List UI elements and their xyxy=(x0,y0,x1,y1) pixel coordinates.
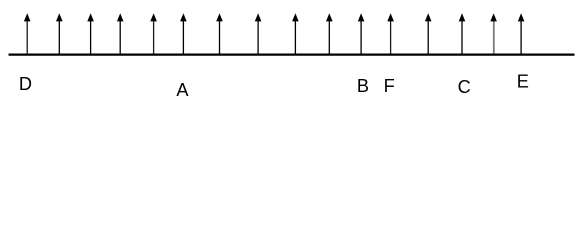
arrow 2 xyxy=(56,13,63,53)
arrow 9 xyxy=(292,13,299,53)
beam line xyxy=(9,53,575,55)
arrow 13 xyxy=(425,13,432,53)
arrow 6 (at A) xyxy=(180,13,187,53)
arrow 15 xyxy=(490,13,497,53)
svg-text:C: C xyxy=(458,77,471,97)
arrow 14 (at C) xyxy=(459,13,466,53)
arrow 12 (at F) xyxy=(387,13,394,53)
arrow 7 xyxy=(216,13,223,53)
svg-text:B: B xyxy=(357,76,369,96)
arrow 4 xyxy=(117,13,124,53)
svg-text:E: E xyxy=(517,71,529,91)
arrow 10 xyxy=(326,13,333,53)
arrow 3 xyxy=(87,13,94,53)
arrow 11 (at B) xyxy=(358,13,365,53)
arrow 1 (at D) xyxy=(24,13,31,53)
arrow 8 xyxy=(255,13,262,53)
arrow 16 (at E) xyxy=(518,13,525,53)
svg-text:A: A xyxy=(176,80,189,100)
svg-text:D: D xyxy=(19,74,32,94)
svg-text:F: F xyxy=(384,76,395,96)
arrow 5 xyxy=(150,13,157,53)
